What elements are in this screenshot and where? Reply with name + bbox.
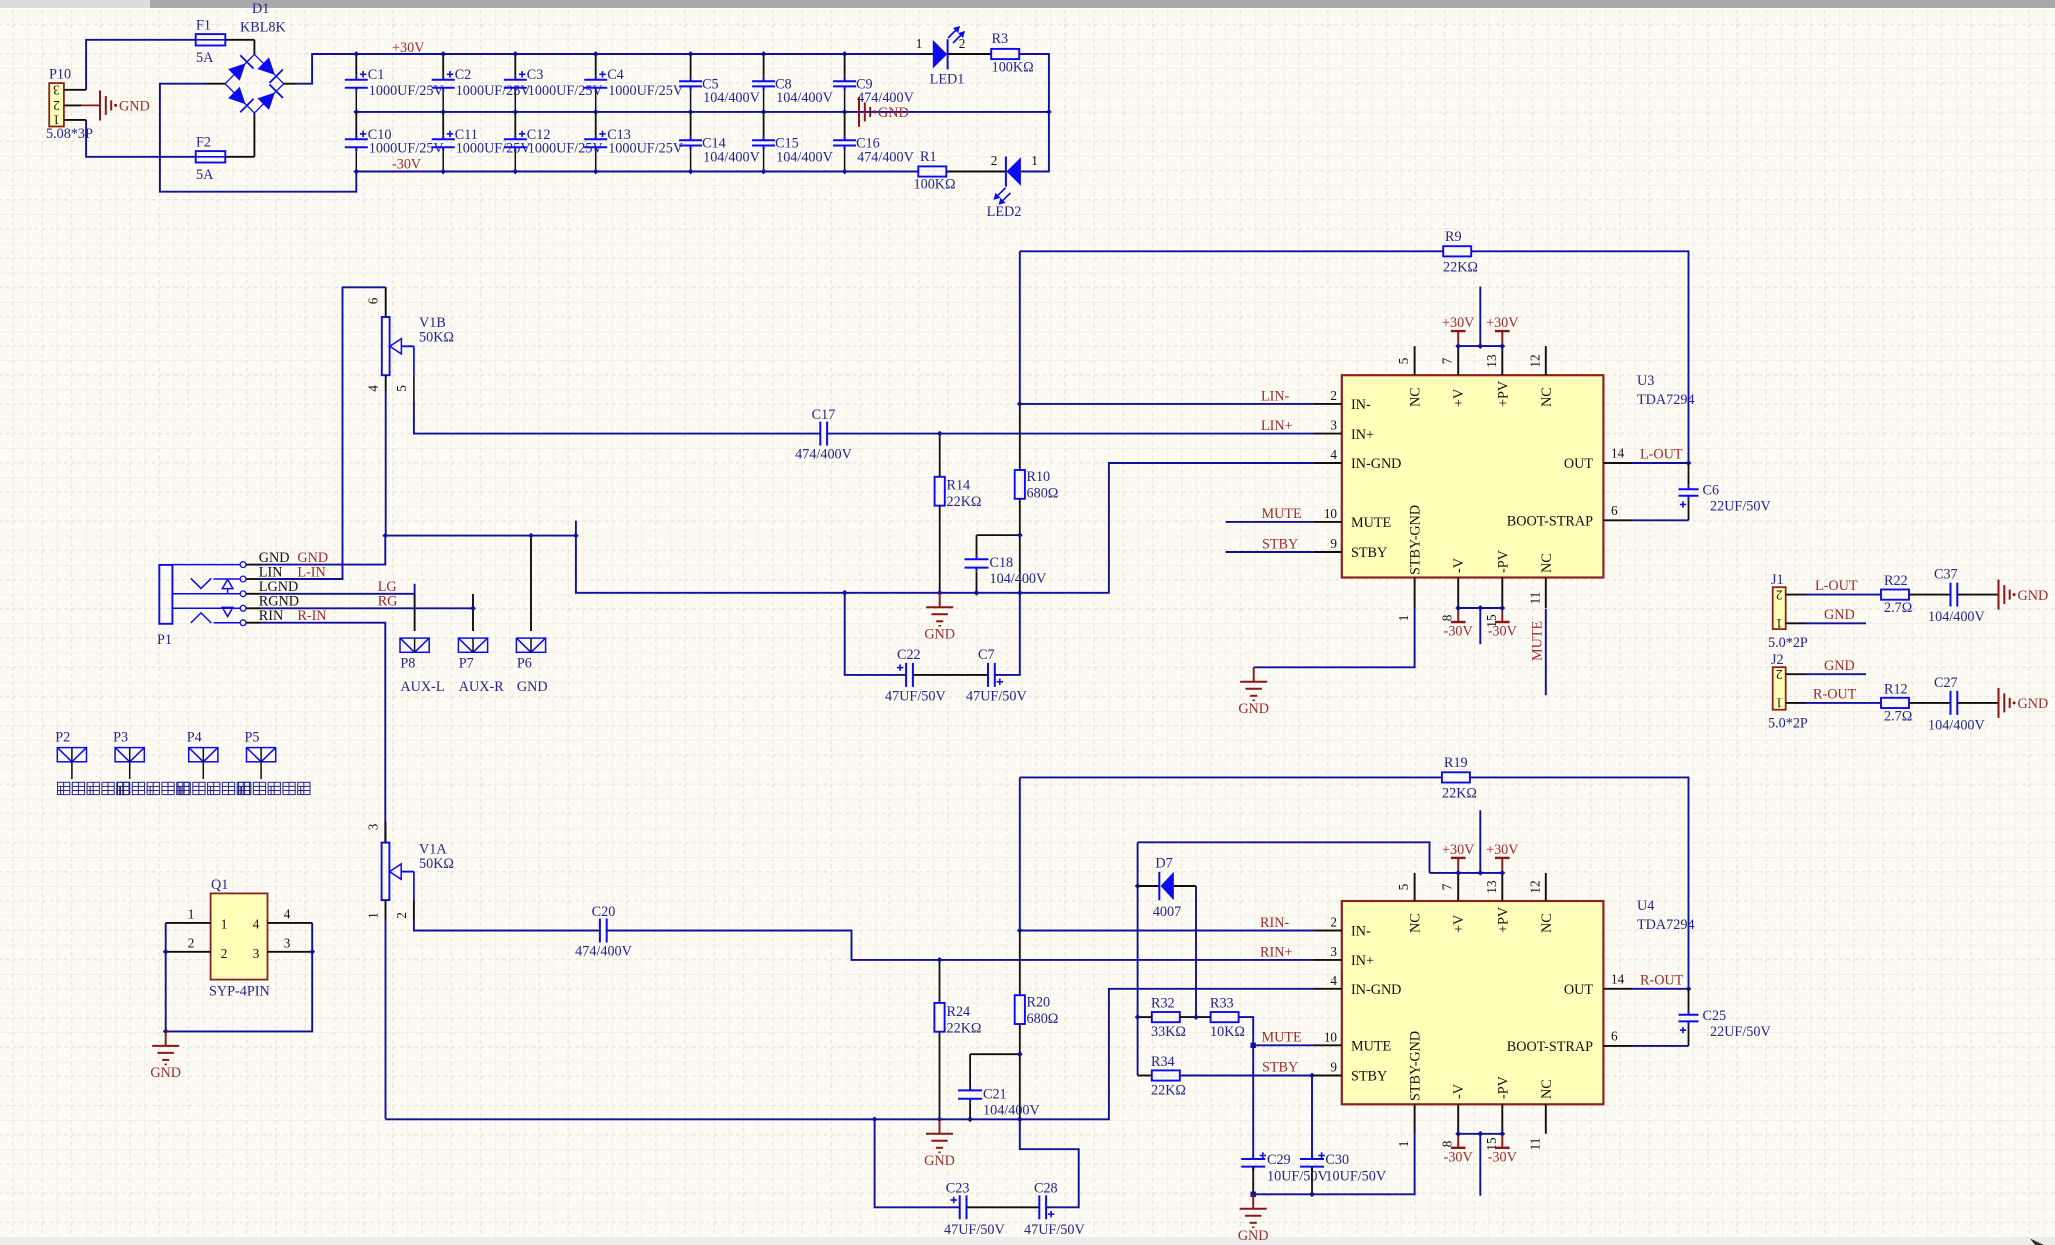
wire J1.2 L-OUT <box>1806 594 1881 596</box>
svg-text:L-IN: L-IN <box>297 564 325 580</box>
lead D7 <box>1138 885 1159 887</box>
svg-text:LIN+: LIN+ <box>1261 418 1293 434</box>
capacitor C16 474/400V <box>833 136 856 149</box>
pin 7 U4 <box>1457 873 1459 901</box>
wire U3 pin1 to GND <box>1254 608 1415 667</box>
junction MUTE node <box>1251 1043 1256 1048</box>
svg-text:GND: GND <box>1238 701 1269 717</box>
svg-text:STBY-GND: STBY-GND <box>1408 505 1424 575</box>
junction R20/C21 <box>1017 1051 1023 1057</box>
wire LED1 to R3 <box>948 53 992 55</box>
wire bridge neg stub <box>205 83 225 85</box>
svg-text:OUT: OUT <box>1564 982 1593 998</box>
svg-text:12: 12 <box>1527 880 1542 893</box>
lead R14 bottom <box>939 506 941 593</box>
svg-text:F1: F1 <box>196 18 211 34</box>
svg-text:L-OUT: L-OUT <box>1640 447 1683 463</box>
svg-text:3: 3 <box>1330 944 1337 959</box>
wire GND net from P1 <box>261 536 385 565</box>
svg-text:12: 12 <box>1527 354 1542 367</box>
svg-text:+30V: +30V <box>1486 842 1519 858</box>
lead C3 <box>514 54 516 76</box>
junction <box>1477 870 1483 876</box>
connector Q1 SYP-4PIN <box>211 893 268 979</box>
lead R10 top <box>1019 404 1021 470</box>
wire P10.1 to F2 <box>86 120 195 157</box>
svg-text:GND: GND <box>1824 607 1855 623</box>
junction R32/R33/D7 <box>1193 1014 1199 1020</box>
op-amp U4 TDA7294 <box>1342 901 1604 1104</box>
pin 3 lead V1A <box>385 822 387 843</box>
lead C1 <box>355 54 357 76</box>
svg-text:RIN-: RIN- <box>1260 915 1289 931</box>
junction <box>1477 605 1483 611</box>
svg-text:4007: 4007 <box>1153 904 1181 920</box>
junction Q1 pin3 <box>309 949 315 955</box>
pin 5 lead V1B <box>413 402 415 419</box>
wire D7 cathode column <box>1137 842 1139 1075</box>
svg-text:IN-: IN- <box>1351 924 1371 940</box>
wire wiper to C17 <box>414 419 820 434</box>
junction <box>353 109 359 115</box>
wire -30V stub down <box>1479 608 1481 644</box>
capacitor C12 1000UF/25V <box>504 135 527 151</box>
junction <box>842 169 848 175</box>
svg-text:47UF/50V: 47UF/50V <box>944 1222 1005 1238</box>
capacitor C20 474/400V <box>600 919 607 943</box>
svg-text:STBY: STBY <box>1351 545 1387 561</box>
capacitor C9 474/400V <box>833 77 856 90</box>
resistor R9 22K <box>1443 246 1471 256</box>
svg-text:5A: 5A <box>196 167 214 183</box>
wire loop right leg R <box>1020 1119 1079 1207</box>
power +30V at U4 pin7 <box>1451 857 1466 859</box>
svg-text:7: 7 <box>1440 883 1455 890</box>
junction <box>1499 870 1505 876</box>
svg-text:-V: -V <box>1451 1083 1467 1099</box>
svg-text:8: 8 <box>1440 1140 1455 1147</box>
svg-text:1000UF/25V: 1000UF/25V <box>528 83 604 99</box>
svg-text:100KΩ: 100KΩ <box>914 177 956 193</box>
lead C6 bottom <box>1688 500 1690 521</box>
pin 15 U4 <box>1501 1104 1503 1134</box>
diode D1 bottom-left <box>228 87 246 105</box>
svg-text:1: 1 <box>1776 696 1783 711</box>
wire IN-GND return R channel <box>386 989 1314 1120</box>
pin 3 Q1 <box>268 951 313 953</box>
junction <box>1455 343 1461 349</box>
lead R34 left <box>1138 1075 1152 1077</box>
capacitor C8 104/400V <box>752 77 775 90</box>
junction GND rail to LED leg <box>1046 109 1052 115</box>
fuse F2 <box>196 151 226 162</box>
ground GND left channel <box>926 593 953 626</box>
capacitor C25 22UF/50V <box>1679 1011 1699 1026</box>
pin 14 OUT U4 <box>1603 988 1632 990</box>
svg-text:D7: D7 <box>1155 856 1172 872</box>
svg-text:GND: GND <box>924 1153 955 1169</box>
svg-text:IN-: IN- <box>1351 397 1371 413</box>
svg-text:P5: P5 <box>245 730 260 746</box>
capacitor C27 104/400V <box>1951 691 1958 715</box>
junction <box>440 169 446 175</box>
svg-text:R-IN: R-IN <box>297 608 326 624</box>
junction R10/C18 <box>1017 532 1023 538</box>
capacitor C37 104/400V <box>1951 583 1958 607</box>
resistor R12 2.7 <box>1881 698 1909 708</box>
svg-text:2: 2 <box>1776 587 1783 602</box>
lead C15 <box>763 112 765 136</box>
svg-text:6: 6 <box>1611 503 1618 518</box>
lead R24 bottom <box>939 1032 941 1120</box>
svg-text:9: 9 <box>1330 536 1337 551</box>
wire P10.3 to F1 <box>86 40 195 90</box>
background sheet <box>0 8 2055 10</box>
svg-text:AUX-L: AUX-L <box>400 679 444 695</box>
capacitor C6 22UF/50V <box>1679 485 1699 500</box>
resistor R20 680 <box>1015 995 1025 1024</box>
wire D7 to +30V tie <box>1138 842 1430 873</box>
svg-text:STBY-GND: STBY-GND <box>1408 1031 1424 1101</box>
pin 9 U4 <box>1313 1075 1342 1077</box>
pin 3 U4 <box>1313 959 1342 961</box>
pin 7 U3 <box>1457 346 1459 375</box>
svg-text:C7: C7 <box>978 647 995 663</box>
wire D7 anode down <box>1195 886 1197 1017</box>
wire R9 left leg <box>1019 251 1021 404</box>
diode D1 top-left <box>228 63 246 80</box>
svg-text:R14: R14 <box>947 478 971 494</box>
svg-text:5.0*2P: 5.0*2P <box>1768 716 1808 732</box>
wire +V/+PV tie U4 <box>1430 872 1503 874</box>
connector P3 mounting hole <box>115 748 144 762</box>
lead C13 <box>595 112 597 135</box>
resistor R10 680 <box>1015 470 1025 499</box>
svg-text:GND: GND <box>150 1065 181 1081</box>
pin 10 U3 <box>1313 521 1342 523</box>
svg-text:C22: C22 <box>897 647 921 663</box>
svg-text:R20: R20 <box>1027 994 1051 1010</box>
svg-text:474/400V: 474/400V <box>575 944 633 960</box>
svg-text:2: 2 <box>1776 667 1783 682</box>
junction Q1 GND <box>163 1029 169 1035</box>
ground GND at Q1 <box>152 1031 179 1064</box>
lead C9 <box>844 54 846 77</box>
svg-text:C17: C17 <box>812 407 836 423</box>
pin stub P10.3 <box>64 89 86 91</box>
svg-text:1000UF/25V: 1000UF/25V <box>456 141 532 157</box>
diode D1 bottom-right <box>257 93 275 111</box>
svg-text:-PV: -PV <box>1495 1075 1511 1099</box>
lead R20 top <box>1019 931 1021 996</box>
capacitor C7 47UF/50V <box>988 663 995 687</box>
bottom scrollbar <box>0 1237 2055 1245</box>
svg-text:-30V: -30V <box>1488 624 1518 640</box>
svg-text:1000UF/25V: 1000UF/25V <box>608 83 684 99</box>
junction <box>761 169 767 175</box>
svg-text:P2: P2 <box>55 730 70 746</box>
wire -V/-PV tie <box>1458 607 1502 609</box>
junction <box>353 51 359 57</box>
pin wire <box>246 622 261 624</box>
junction <box>440 109 446 115</box>
svg-text:F2: F2 <box>196 135 211 151</box>
pin stub J2.1 <box>1786 702 1806 704</box>
pin 3 U3 <box>1313 433 1342 435</box>
diode D1 top-right <box>257 57 275 75</box>
svg-text:D1: D1 <box>252 1 269 17</box>
svg-text:3: 3 <box>284 935 291 950</box>
svg-text:STBY: STBY <box>1351 1069 1387 1085</box>
ground GND at P10 <box>100 90 111 120</box>
pin stub J2.2 <box>1786 673 1806 675</box>
svg-text:KBL8K: KBL8K <box>240 20 286 36</box>
svg-text:33KΩ: 33KΩ <box>1151 1024 1186 1040</box>
svg-text:474/400V: 474/400V <box>857 150 915 166</box>
svg-text:NC: NC <box>1408 913 1424 933</box>
svg-text:R33: R33 <box>1210 996 1234 1012</box>
junction <box>593 169 599 175</box>
svg-text:C23: C23 <box>946 1180 970 1196</box>
svg-text:C29: C29 <box>1267 1152 1291 1168</box>
junction C29 node <box>1251 1192 1256 1197</box>
lead C8 <box>763 54 765 77</box>
svg-text:MUTE: MUTE <box>1262 506 1302 522</box>
lead P6 to GND net <box>530 538 532 631</box>
svg-text:NC: NC <box>1539 387 1555 407</box>
svg-text:NC: NC <box>1539 553 1555 573</box>
svg-text:3: 3 <box>253 946 260 961</box>
svg-text:NC: NC <box>1408 387 1424 407</box>
wire wiper V1A to C20 <box>414 920 600 931</box>
svg-text:13: 13 <box>1484 880 1499 894</box>
wire GND rail <box>356 111 1049 113</box>
svg-text:GND: GND <box>1238 1228 1269 1244</box>
lead C30 bottom <box>1311 1167 1313 1195</box>
svg-text:14: 14 <box>1611 971 1625 986</box>
capacitor C4 1000UF/25V <box>584 76 607 92</box>
svg-text:BOOT-STRAP: BOOT-STRAP <box>1507 1039 1593 1055</box>
svg-text:C4: C4 <box>607 67 624 83</box>
wiper wire V1B <box>401 345 414 347</box>
svg-text:11: 11 <box>1527 592 1542 605</box>
lead C29 bottom <box>1252 1167 1254 1195</box>
svg-text:1: 1 <box>1396 615 1411 622</box>
svg-text:OUT: OUT <box>1564 456 1593 472</box>
junction C18 / GND wire <box>974 590 980 596</box>
svg-text:RIN+: RIN+ <box>1260 945 1292 961</box>
pin 4 U4 <box>1313 988 1342 990</box>
svg-text:GND: GND <box>878 105 909 121</box>
wire pin6 to C25 <box>1632 1045 1689 1047</box>
connector P6 <box>516 638 545 652</box>
svg-text:680Ω: 680Ω <box>1027 1011 1059 1027</box>
lead C4 <box>595 54 597 76</box>
svg-text:C21: C21 <box>983 1086 1007 1102</box>
junction R20/loop <box>1017 1116 1023 1122</box>
top scrollbar <box>0 0 2055 8</box>
power -30V at U3 pin8 <box>1451 621 1466 623</box>
wire IN+ (LIN+) to U3 pin3 <box>827 433 1313 435</box>
pin 10 U4 <box>1313 1044 1342 1046</box>
svg-text:2: 2 <box>991 153 998 168</box>
svg-text:1: 1 <box>1776 616 1783 631</box>
svg-text:+V: +V <box>1451 388 1467 407</box>
pin 9 U3 <box>1313 551 1342 553</box>
text mounting hole captions <box>58 782 130 794</box>
svg-text:C3: C3 <box>527 67 544 83</box>
wire R33 to MUTE node <box>1239 1017 1254 1155</box>
svg-text:11: 11 <box>1527 1138 1542 1151</box>
junction loop R <box>872 1116 878 1122</box>
junction <box>1477 1131 1483 1137</box>
svg-text:LED2: LED2 <box>987 204 1022 220</box>
svg-text:MUTE: MUTE <box>1351 515 1391 531</box>
svg-text:J2: J2 <box>1771 652 1784 668</box>
svg-text:22KΩ: 22KΩ <box>1151 1082 1186 1098</box>
svg-text:C2: C2 <box>455 67 472 83</box>
pin 5 U4 <box>1414 873 1416 901</box>
svg-text:-PV: -PV <box>1495 549 1511 573</box>
connector P5 mounting hole <box>247 748 276 762</box>
wire decoupling loop left <box>845 593 906 675</box>
svg-text:22KΩ: 22KΩ <box>947 1021 982 1037</box>
pin 4 U3 <box>1313 462 1342 464</box>
resistor R24 22K <box>934 1003 944 1032</box>
svg-text:104/400V: 104/400V <box>703 90 761 106</box>
wire R9 to L-OUT node <box>1471 251 1688 463</box>
capacitor C18 104/400V <box>965 555 989 571</box>
capacitor C11 1000UF/25V <box>432 135 455 151</box>
svg-text:4: 4 <box>1330 973 1337 988</box>
lead P8 <box>414 594 416 631</box>
svg-text:R22: R22 <box>1884 573 1908 589</box>
wire R19 left leg <box>1019 777 1021 930</box>
capacitor C22 47UF/50V <box>906 663 913 687</box>
wire RIN+ to U4 pin3 <box>607 931 1313 960</box>
junction L-OUT <box>1686 460 1692 466</box>
pin 13 U4 <box>1501 873 1503 901</box>
capacitor C13 1000UF/25V <box>584 135 607 151</box>
wire feedback to R19 <box>1020 776 1442 778</box>
ground GND at C29 <box>1240 1194 1267 1227</box>
svg-text:R12: R12 <box>1884 681 1908 697</box>
pin 2 U3 <box>1313 403 1342 405</box>
wire bridge pos stub <box>284 83 295 85</box>
lead R14 top <box>939 434 941 477</box>
svg-text:P6: P6 <box>517 656 532 672</box>
pin 4 lead V1B <box>385 375 387 391</box>
wiper wire V1A <box>401 871 414 873</box>
wire +30V rail <box>295 54 933 84</box>
svg-text:SYP-4PIN: SYP-4PIN <box>209 984 270 1000</box>
pin stub P10.2 <box>64 104 81 106</box>
junction <box>1477 343 1483 349</box>
lead C14 <box>690 112 692 136</box>
junction GND corner <box>573 533 579 539</box>
bridge rectifier D1 KBL8K <box>225 54 284 113</box>
pin 8 U3 <box>1457 578 1459 609</box>
svg-text:10: 10 <box>1324 1029 1338 1044</box>
lead C25 top <box>1688 989 1690 1011</box>
svg-text:1: 1 <box>221 917 228 932</box>
resistor R14 22K <box>935 477 945 506</box>
wire STBY to C30 <box>1311 1076 1313 1156</box>
svg-text:C6: C6 <box>1703 483 1720 499</box>
svg-text:R3: R3 <box>992 31 1009 47</box>
pin stub J1.1 <box>1786 622 1806 624</box>
svg-text:22KΩ: 22KΩ <box>1442 786 1477 802</box>
lead C16 <box>844 112 846 136</box>
pin wire <box>246 578 261 580</box>
svg-text:47UF/50V: 47UF/50V <box>885 689 946 705</box>
lead C25 bottom <box>1688 1025 1690 1046</box>
svg-text:104/400V: 104/400V <box>1928 609 1986 625</box>
svg-text:C18: C18 <box>990 555 1014 571</box>
lead R20 bottom <box>1019 1024 1021 1119</box>
wire C22 to C7 <box>913 674 988 676</box>
lead C10 <box>355 112 357 135</box>
svg-text:1000UF/25V: 1000UF/25V <box>456 83 532 99</box>
svg-text:4: 4 <box>284 906 291 921</box>
junction <box>1455 605 1461 611</box>
wire C37 to ground <box>1957 594 1998 596</box>
junction GND node <box>382 533 388 539</box>
svg-text:IN+: IN+ <box>1351 953 1374 969</box>
wire MUTE <box>1226 521 1314 523</box>
svg-text:R19: R19 <box>1444 755 1468 771</box>
wire J2.2 GND <box>1806 673 1866 675</box>
wire up to bridge AC2 <box>253 113 255 157</box>
junction R14 / GND wire <box>937 590 943 596</box>
junction IN- node <box>1017 401 1023 407</box>
wire R-IN to V1A pin3 <box>261 623 385 843</box>
pin 12 U3 <box>1545 346 1547 375</box>
stub <box>575 521 577 536</box>
pin 6 U3 <box>1603 519 1632 521</box>
wire -V/-PV tie U4 <box>1458 1133 1502 1135</box>
wire RIN- to U4 pin2 <box>1020 930 1313 932</box>
junction C21/GND wire <box>967 1116 973 1122</box>
svg-text:1: 1 <box>916 36 923 51</box>
wire decoupling loop left R <box>875 1119 960 1207</box>
wire +V/+PV tie <box>1458 345 1502 347</box>
svg-text:STBY: STBY <box>1262 537 1298 553</box>
svg-text:5: 5 <box>1396 357 1411 364</box>
svg-text:50KΩ: 50KΩ <box>419 330 454 346</box>
pin 2 lead V1A <box>413 900 415 920</box>
wire R1 to LED2 <box>947 171 1006 173</box>
lead C5 <box>690 54 692 77</box>
pin 8 U4 <box>1457 1104 1459 1134</box>
svg-text:13: 13 <box>1484 354 1499 368</box>
junction <box>593 109 599 115</box>
svg-text:Q1: Q1 <box>211 877 228 893</box>
lead C12 <box>514 112 516 135</box>
svg-text:P4: P4 <box>187 730 202 746</box>
wire LIN- to U3 pin2 <box>1020 403 1313 405</box>
wire L-IN to V1B pin6 <box>261 287 386 579</box>
svg-text:U4: U4 <box>1637 898 1654 914</box>
svg-text:TDA7294: TDA7294 <box>1637 392 1695 408</box>
svg-text:+30V: +30V <box>1486 315 1519 331</box>
pin 6 lead V1B <box>385 287 387 317</box>
svg-text:P8: P8 <box>400 656 415 672</box>
junction STBY/C30 <box>1309 1073 1315 1079</box>
lead C11 <box>442 112 444 135</box>
LED LED2 <box>1007 157 1021 186</box>
junction <box>1455 1131 1461 1137</box>
